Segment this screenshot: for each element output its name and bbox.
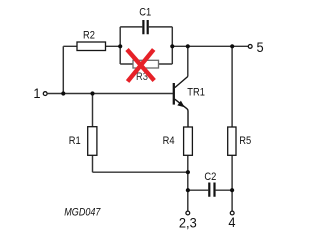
svg-text:1: 1 (33, 86, 40, 101)
svg-text:2,3: 2,3 (179, 215, 197, 230)
svg-text:R4: R4 (163, 135, 175, 147)
svg-text:MGD047: MGD047 (64, 207, 100, 219)
svg-text:R1: R1 (69, 135, 81, 147)
svg-text:R2: R2 (83, 30, 95, 42)
svg-text:R5: R5 (239, 135, 251, 147)
svg-text:TR1: TR1 (187, 87, 205, 99)
svg-text:4: 4 (228, 215, 235, 230)
svg-text:5: 5 (257, 40, 264, 55)
svg-text:C2: C2 (204, 171, 216, 183)
svg-text:C1: C1 (139, 7, 151, 19)
